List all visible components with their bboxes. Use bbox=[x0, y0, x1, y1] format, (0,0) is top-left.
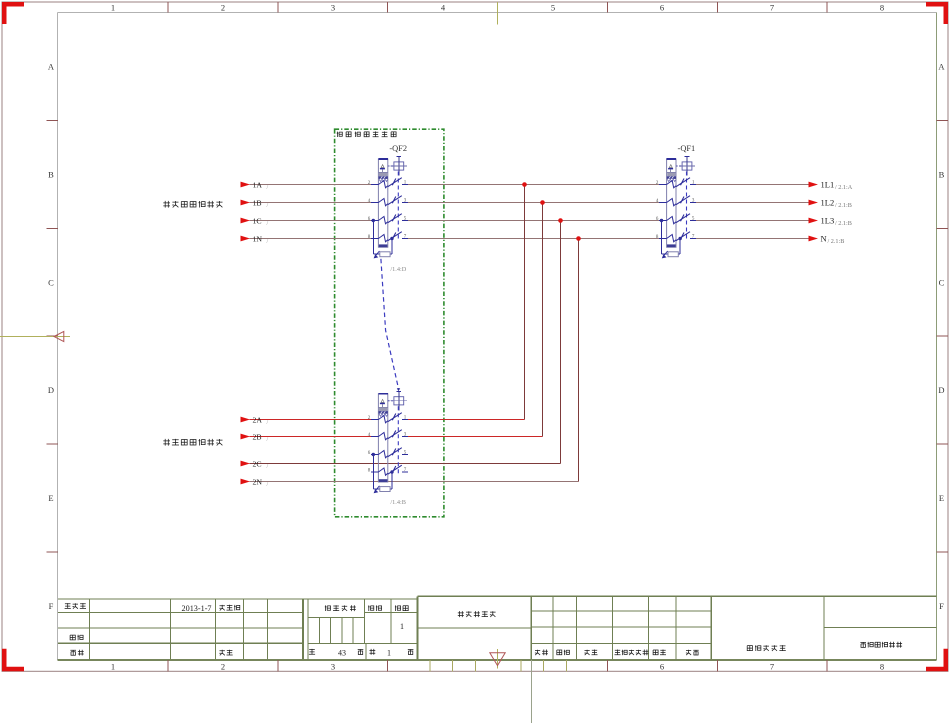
pole 1 contact bbox=[659, 184, 666, 186]
svg-text:2C: 2C bbox=[253, 460, 262, 469]
zone tick right bbox=[937, 119, 948, 121]
zone divider bottom 5 bbox=[826, 660, 828, 671]
wire 1B QF2 to QF1 bbox=[408, 202, 660, 204]
svg-text:2B: 2B bbox=[253, 433, 262, 442]
label 标准化 bbox=[219, 605, 239, 611]
wire 1N QF2 to QF1 bbox=[408, 238, 660, 240]
svg-text:1L3: 1L3 bbox=[821, 216, 835, 226]
riser phase C bbox=[560, 221, 562, 464]
junction dot bbox=[576, 236, 581, 241]
wire 1A QF2 to QF1 bbox=[408, 184, 660, 186]
inner drawing frame bottom bbox=[58, 659, 937, 661]
svg-text:/: / bbox=[267, 482, 269, 488]
label 日期 bbox=[686, 650, 699, 655]
trip coil bbox=[380, 252, 390, 257]
svg-text:2: 2 bbox=[368, 181, 371, 186]
label 创建者 bbox=[65, 603, 86, 609]
svg-text:/ 2.1:B: / 2.1:B bbox=[835, 220, 852, 227]
arrow output 1L2 bbox=[809, 200, 819, 206]
svg-text:4: 4 bbox=[656, 199, 659, 204]
trip coil bbox=[668, 252, 678, 257]
svg-text:4: 4 bbox=[368, 433, 371, 438]
svg-text:1L1: 1L1 bbox=[821, 180, 835, 190]
svg-text:/ 2.1:B: / 2.1:B bbox=[835, 202, 852, 209]
enclosure label 双电源切换开关 bbox=[337, 131, 396, 137]
svg-text:8: 8 bbox=[880, 2, 884, 12]
inner drawing frame right bbox=[936, 13, 938, 661]
pole 2 contact bbox=[659, 202, 666, 204]
svg-text:2: 2 bbox=[221, 2, 225, 12]
svg-text:B: B bbox=[939, 169, 945, 179]
label 签名 bbox=[653, 650, 666, 655]
wire output 1L3 bbox=[696, 220, 809, 222]
operating mechanism bbox=[394, 397, 404, 405]
svg-text:2: 2 bbox=[368, 416, 371, 421]
label 阶段标记 bbox=[325, 605, 356, 611]
svg-text:7: 7 bbox=[770, 2, 774, 12]
pole 1 contact bbox=[371, 184, 378, 186]
wire input 1N bbox=[250, 238, 372, 240]
svg-text:8: 8 bbox=[368, 235, 371, 240]
svg-text:/: / bbox=[267, 420, 269, 426]
zone tick left bbox=[47, 227, 59, 229]
wire output N bbox=[696, 238, 809, 240]
pole 2 contact bbox=[371, 202, 378, 204]
svg-text:A: A bbox=[938, 62, 945, 72]
svg-text:2N: 2N bbox=[253, 478, 263, 487]
sheet count row bbox=[309, 649, 315, 654]
svg-text:/ 2.1:B: / 2.1:B bbox=[828, 238, 845, 245]
linkage dashed bbox=[397, 406, 399, 473]
pole 3 contact bbox=[659, 220, 666, 222]
svg-text:N: N bbox=[821, 234, 827, 244]
zone tick left bbox=[47, 443, 59, 445]
hatch bar bbox=[667, 176, 676, 179]
svg-text:1B: 1B bbox=[253, 199, 262, 208]
junction dot bbox=[540, 200, 545, 205]
breaker body box bbox=[667, 159, 676, 247]
actuator triangle bbox=[381, 165, 384, 168]
wire input 2B bbox=[250, 436, 372, 438]
actuator triangle bbox=[669, 165, 672, 168]
svg-text:F: F bbox=[939, 601, 944, 611]
svg-text:D: D bbox=[938, 385, 944, 395]
svg-text:8: 8 bbox=[656, 235, 659, 240]
wire input 2C bbox=[250, 463, 561, 465]
linkage dashed bbox=[686, 172, 688, 241]
pole 1 contact bbox=[371, 419, 378, 421]
zone tick right bbox=[937, 335, 948, 337]
label 批准 bbox=[219, 650, 232, 656]
bottom bar bbox=[379, 479, 388, 482]
svg-text:6: 6 bbox=[368, 217, 371, 222]
project name 半拉港道堆场 bbox=[860, 642, 902, 648]
svg-text:5: 5 bbox=[551, 2, 555, 12]
svg-text:7: 7 bbox=[770, 661, 774, 671]
svg-text:43: 43 bbox=[338, 649, 346, 658]
drawing name 电源线分配 bbox=[747, 645, 786, 651]
label 第一组电源输入 bbox=[163, 201, 222, 208]
wire input 2A bbox=[250, 419, 372, 421]
trip arrow bbox=[376, 251, 379, 255]
zone divider bottom 0 bbox=[167, 660, 169, 671]
enclosure 双电源切换开关 dashed box bbox=[335, 129, 444, 517]
svg-text:2: 2 bbox=[656, 181, 659, 186]
svg-text:-QF1: -QF1 bbox=[678, 144, 696, 153]
actuator triangle bbox=[381, 399, 384, 402]
svg-text:1: 1 bbox=[111, 661, 115, 671]
svg-text:4: 4 bbox=[368, 199, 371, 204]
svg-text:/1.4:B: /1.4:B bbox=[390, 499, 406, 506]
svg-text:/ 2.1:A: / 2.1:A bbox=[835, 184, 853, 191]
riser phase B bbox=[542, 203, 544, 437]
zone divider bottom 4 bbox=[716, 660, 718, 671]
zone tick left bbox=[47, 335, 59, 337]
trip arrow bbox=[664, 251, 667, 255]
arrow input 1B bbox=[241, 200, 251, 206]
arrow output 1L3 bbox=[809, 218, 819, 224]
wire QF3 output pole1 bbox=[408, 419, 525, 421]
zone divider top 0 bbox=[167, 2, 169, 13]
wire input 1C bbox=[250, 220, 372, 222]
spring zigzag bbox=[379, 179, 388, 181]
zone divider top 1 bbox=[277, 2, 279, 13]
arrow input 1A bbox=[241, 182, 251, 188]
svg-text:A: A bbox=[48, 62, 55, 72]
label 第二组电源输入 bbox=[163, 439, 222, 446]
label 比例 bbox=[395, 605, 408, 611]
doc type 多线原理图 bbox=[458, 611, 496, 617]
label 更改文件号 bbox=[615, 650, 649, 656]
breaker body box bbox=[378, 159, 387, 247]
trip unit wiring bbox=[372, 221, 374, 255]
wire input 1A bbox=[250, 184, 372, 186]
metric reference graduation bbox=[429, 660, 431, 671]
arrow input 2N bbox=[241, 479, 251, 485]
breaker body box bbox=[378, 394, 387, 482]
title block left table bbox=[58, 598, 303, 600]
link box to mechanism bbox=[388, 400, 393, 402]
svg-text:E: E bbox=[48, 493, 53, 503]
centering mark top bbox=[497, 2, 499, 25]
arrow input 1C bbox=[241, 218, 251, 224]
svg-text:-QF2: -QF2 bbox=[389, 144, 407, 153]
wire output 1L1 bbox=[696, 184, 809, 186]
svg-text:1L2: 1L2 bbox=[821, 198, 835, 208]
link box to mechanism bbox=[676, 165, 681, 167]
title block middle sub-table (stage mark) bbox=[303, 598, 418, 600]
svg-text:/1.4:D: /1.4:D bbox=[390, 266, 406, 273]
operating mechanism bbox=[682, 162, 692, 170]
svg-text:3: 3 bbox=[331, 661, 335, 671]
trip unit wiring bbox=[661, 221, 663, 255]
junction dot bbox=[558, 218, 563, 223]
zone divider top 4 bbox=[716, 2, 718, 13]
corner mark top-left bbox=[2, 2, 24, 24]
zone tick right bbox=[937, 443, 948, 445]
zone divider bottom 1 bbox=[277, 660, 279, 671]
riser neutral bbox=[578, 239, 580, 482]
pole 4 contact bbox=[371, 471, 378, 473]
svg-text:1C: 1C bbox=[253, 217, 262, 226]
svg-text:/: / bbox=[267, 437, 269, 443]
arrow input 2A bbox=[241, 417, 251, 423]
arrow input 1N bbox=[241, 236, 251, 242]
svg-text:D: D bbox=[48, 385, 54, 395]
svg-text:8: 8 bbox=[368, 469, 371, 474]
pole 3 contact bbox=[371, 454, 378, 456]
wire input 2N bbox=[250, 481, 579, 483]
svg-text:6: 6 bbox=[660, 661, 664, 671]
pole 4 contact bbox=[371, 238, 378, 240]
svg-text:/: / bbox=[267, 464, 269, 470]
title block right table bbox=[418, 595, 937, 597]
svg-text:3: 3 bbox=[331, 2, 335, 12]
svg-text:1A: 1A bbox=[253, 181, 263, 190]
zone tick right bbox=[937, 227, 948, 229]
interlock arrowhead bbox=[397, 388, 400, 391]
corner mark bottom-left bbox=[2, 649, 24, 672]
svg-text:2: 2 bbox=[221, 661, 225, 671]
wire 1C QF2 to QF1 bbox=[408, 220, 660, 222]
svg-text:6: 6 bbox=[656, 217, 659, 222]
trip unit wiring bbox=[372, 455, 374, 490]
spring zigzag bbox=[379, 414, 388, 416]
wire QF3 output pole2 bbox=[408, 436, 543, 438]
interlock dashed link QF2-QF3 bbox=[381, 259, 399, 389]
label 分区 bbox=[584, 650, 597, 656]
hatch bar bbox=[379, 176, 388, 179]
svg-text:E: E bbox=[939, 493, 944, 503]
svg-text:1: 1 bbox=[400, 622, 404, 631]
zone tick left bbox=[47, 119, 59, 121]
label 工艺 bbox=[70, 650, 83, 656]
svg-text:B: B bbox=[48, 169, 54, 179]
svg-text:1N: 1N bbox=[253, 235, 263, 244]
zone divider top 3 bbox=[606, 2, 608, 13]
corner mark bottom-right bbox=[926, 649, 948, 672]
svg-text:C: C bbox=[48, 277, 54, 287]
svg-text:6: 6 bbox=[660, 2, 664, 12]
trip arrow bbox=[376, 486, 379, 490]
zone divider top 5 bbox=[826, 2, 828, 13]
trip coil bbox=[380, 487, 390, 492]
link box to mechanism bbox=[388, 165, 393, 167]
arrow input 2C bbox=[241, 461, 251, 467]
junction dot bbox=[522, 182, 527, 187]
svg-text:/: / bbox=[267, 185, 269, 191]
linkage dashed bbox=[397, 172, 399, 241]
inner drawing frame top bbox=[58, 12, 937, 14]
zone tick left bbox=[47, 551, 59, 553]
bottom bar bbox=[379, 244, 388, 247]
svg-text:1: 1 bbox=[111, 2, 115, 12]
arrow output 1L1 bbox=[809, 182, 819, 188]
svg-text:C: C bbox=[939, 277, 945, 287]
inner drawing frame left bbox=[57, 13, 59, 661]
pole 4 contact bbox=[659, 238, 666, 240]
arrow input 2B bbox=[241, 434, 251, 440]
label 审核 bbox=[70, 635, 83, 641]
centering mark bottom bbox=[497, 649, 499, 669]
corner mark top-right bbox=[926, 2, 948, 24]
label 处数 bbox=[557, 650, 570, 655]
zone tick right bbox=[937, 551, 948, 553]
svg-text:6: 6 bbox=[368, 451, 371, 456]
handle block bbox=[379, 408, 387, 411]
svg-text:1: 1 bbox=[387, 649, 391, 658]
label 标记 bbox=[535, 650, 548, 656]
handle block bbox=[667, 173, 675, 176]
zone divider bottom 3 bbox=[606, 660, 608, 671]
spring zigzag bbox=[667, 179, 676, 181]
centering mark left bbox=[0, 336, 70, 338]
svg-text:/: / bbox=[267, 221, 269, 227]
svg-text:/: / bbox=[267, 239, 269, 245]
hatch bar bbox=[379, 411, 388, 414]
svg-text:F: F bbox=[49, 601, 54, 611]
arrow output N bbox=[809, 236, 819, 242]
pole 2 contact bbox=[371, 436, 378, 438]
svg-text:/: / bbox=[267, 203, 269, 209]
svg-text:2A: 2A bbox=[253, 416, 263, 425]
svg-text:8: 8 bbox=[880, 661, 884, 671]
zone divider bottom 2 bbox=[387, 660, 389, 671]
pole 3 contact bbox=[371, 220, 378, 222]
riser phase A bbox=[524, 185, 526, 420]
zone divider top 2 bbox=[387, 2, 389, 13]
label 重量 bbox=[368, 605, 382, 611]
wire output 1L2 bbox=[696, 202, 809, 204]
svg-text:4: 4 bbox=[441, 2, 446, 12]
handle block bbox=[379, 173, 387, 176]
operating mechanism bbox=[394, 162, 404, 170]
bottom bar bbox=[667, 244, 676, 247]
svg-text:2013-1-7: 2013-1-7 bbox=[182, 604, 212, 613]
wire input 1B bbox=[250, 202, 372, 204]
fold line bottom bbox=[531, 660, 533, 723]
